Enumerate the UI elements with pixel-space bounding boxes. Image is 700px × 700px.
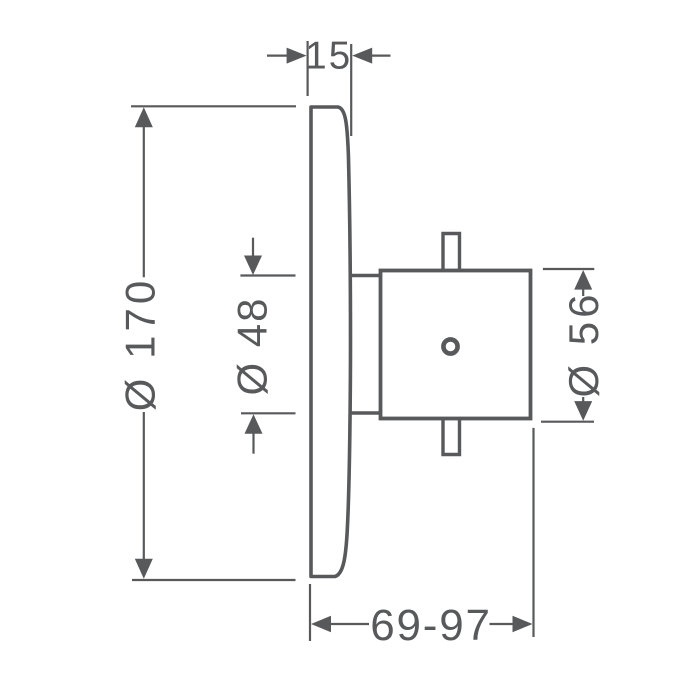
dim 48: bottom extension line xyxy=(241,412,296,414)
dim 15: left arrow xyxy=(287,48,307,64)
dim 69-97: left extension line xyxy=(309,584,311,641)
top tab xyxy=(443,234,460,271)
center screw circle xyxy=(443,339,457,353)
dim 48: bottom arrow (pointing up) xyxy=(245,414,263,434)
svg-text:Ø 48: Ø 48 xyxy=(228,296,275,395)
dim 48: bottom arrow tail xyxy=(252,433,254,454)
dim 48: top extension line xyxy=(240,274,295,276)
dim 69-97: left arrow (pointing left) xyxy=(311,616,331,633)
dim 170: top arrow xyxy=(135,107,153,127)
dim 15: left leader line xyxy=(267,54,288,56)
bottom tab xyxy=(443,419,460,455)
handle body rectangle xyxy=(381,271,531,419)
dim 15: right arrow xyxy=(352,48,372,64)
dim 69-97: left line segment xyxy=(330,623,369,625)
dim 48: top arrow tail xyxy=(252,238,254,257)
dim 15: right leader line xyxy=(372,54,391,56)
svg-text:Ø 56: Ø 56 xyxy=(560,290,607,397)
dim 56: bottom extension line xyxy=(541,421,594,423)
dim 170: upper line segment xyxy=(143,126,145,277)
svg-text:5: 5 xyxy=(329,35,350,78)
dim 69-97: right extension line xyxy=(532,428,534,637)
dim 15: right extension line xyxy=(350,44,352,136)
svg-text:69-97: 69-97 xyxy=(370,601,492,650)
dim 170: bottom arrow xyxy=(135,559,153,579)
dim 56: bottom arrow tail xyxy=(582,397,584,402)
dim 170: top extension line xyxy=(131,105,296,107)
dim 56: top arrow tail xyxy=(582,288,584,296)
svg-text:1: 1 xyxy=(305,35,326,78)
dim 48: top arrow (pointing down) xyxy=(244,256,262,276)
sleeve bottom line xyxy=(350,411,380,414)
dim 56: top arrow (pointing up) xyxy=(574,270,592,290)
dim 56: bottom arrow (pointing down) xyxy=(574,401,592,421)
escutcheon plate side profile xyxy=(311,107,351,577)
dim 69-97: right line segment xyxy=(490,623,515,625)
dim 69-97: right arrow (pointing right) xyxy=(513,616,533,633)
sleeve top line xyxy=(350,274,380,277)
dim 170: lower line segment xyxy=(143,412,145,560)
dim 170: bottom extension line xyxy=(132,579,296,581)
svg-text:Ø 170: Ø 170 xyxy=(116,277,163,411)
dim 15: left extension line xyxy=(307,41,309,96)
dim 56: top extension line xyxy=(543,268,594,270)
